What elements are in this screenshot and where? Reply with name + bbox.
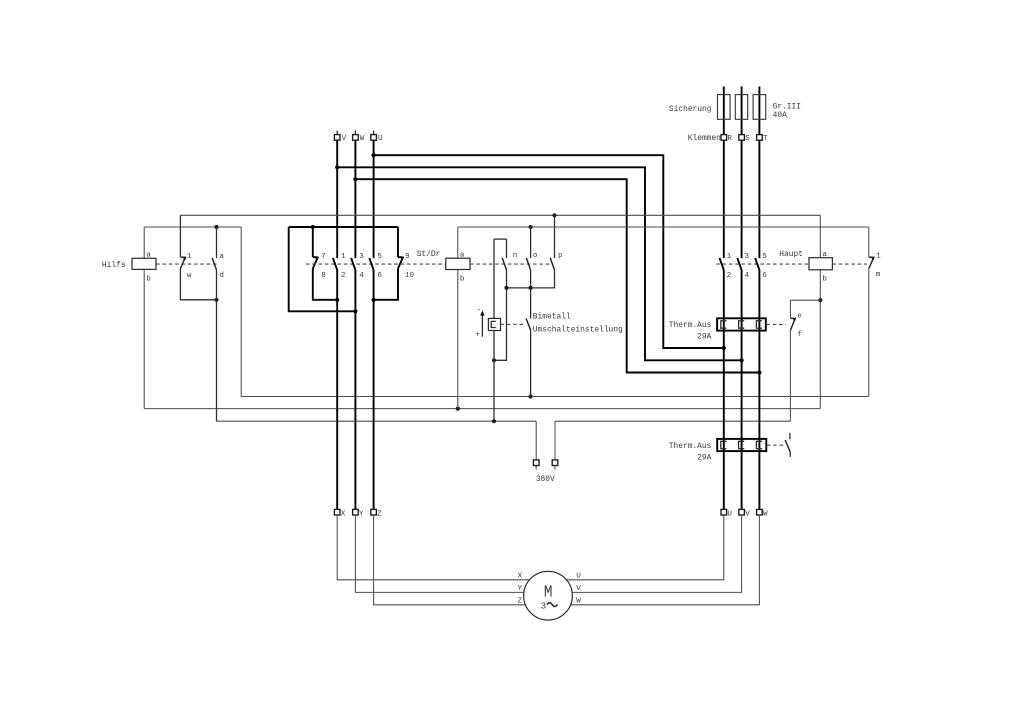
svg-text:2: 2 bbox=[341, 272, 346, 280]
wire 9/10 bottom bbox=[374, 269, 398, 300]
svg-text:40A: 40A bbox=[773, 111, 787, 120]
svg-text:-: - bbox=[476, 306, 481, 315]
label 6 bbox=[377, 272, 382, 280]
label p bbox=[558, 252, 563, 260]
contact 7/8 blade bbox=[313, 256, 319, 268]
wire L2 supply lead S bbox=[741, 87, 743, 259]
wire bus 1 bbox=[241, 396, 869, 398]
wire motor lead right 592.4 bbox=[547, 515, 741, 592]
svg-text:Sicherung: Sicherung bbox=[669, 105, 712, 114]
svg-text:29A: 29A bbox=[697, 453, 711, 462]
svg-text:St/Dr: St/Dr bbox=[417, 250, 441, 259]
svg-text:W: W bbox=[360, 135, 365, 143]
svg-text:W: W bbox=[763, 510, 768, 518]
label Hilfs bbox=[102, 261, 126, 270]
wire W to T bbox=[355, 179, 759, 372]
fuse F3 bbox=[753, 95, 766, 120]
label Haupt 6 bbox=[762, 272, 767, 280]
terminal Z (bottom) bbox=[371, 509, 382, 518]
terminal R bbox=[721, 135, 732, 144]
contact 3/4 blade bbox=[351, 258, 355, 270]
wire top control bus bbox=[180, 214, 820, 216]
svg-text:1: 1 bbox=[341, 253, 346, 261]
label plus bbox=[475, 330, 480, 339]
svg-text:3: 3 bbox=[744, 253, 749, 261]
terminal Y (bottom) bbox=[353, 509, 364, 518]
label d (a/d) bbox=[219, 272, 224, 280]
svg-text:3: 3 bbox=[541, 601, 546, 611]
svg-text:a: a bbox=[822, 251, 827, 259]
wire 723.8 lower main bbox=[723, 270, 725, 510]
label a (a/d) bbox=[219, 253, 224, 261]
svg-text:3: 3 bbox=[359, 253, 364, 261]
label 3~ bbox=[541, 601, 558, 611]
label Haupt 1 bbox=[727, 253, 732, 261]
label f bbox=[797, 331, 802, 339]
wire V vertical bbox=[336, 140, 338, 258]
node o-contact tap bbox=[529, 225, 533, 229]
wire motor lead right 604.8 bbox=[547, 515, 759, 605]
label 380V bbox=[536, 475, 555, 484]
label Bimetall bbox=[533, 312, 571, 321]
contact 7/8 upper bbox=[312, 227, 314, 257]
wire riser x241 bbox=[240, 227, 242, 397]
contact a/d blade bbox=[212, 258, 216, 270]
contact a/d upper bbox=[216, 227, 218, 258]
overload F4 box bbox=[717, 318, 766, 330]
wire K1 top stem bbox=[143, 227, 145, 258]
contact e/f upper bbox=[790, 300, 820, 318]
overload F5 box bbox=[717, 439, 766, 451]
wire K1 bottom stem bbox=[143, 269, 145, 408]
svg-text:V: V bbox=[745, 510, 750, 518]
svg-text:p: p bbox=[558, 252, 563, 260]
terminal W (top) bbox=[353, 131, 365, 144]
label M bbox=[544, 583, 553, 602]
contact o upper bbox=[530, 227, 532, 258]
contact 1/m upper bbox=[868, 227, 870, 257]
terminal U (top) bbox=[371, 131, 383, 144]
pin b K1 bbox=[146, 276, 151, 284]
label Haupt 3 bbox=[744, 253, 749, 261]
node T tap bbox=[757, 370, 761, 374]
node n-bimetall junction bbox=[492, 358, 496, 362]
wire 380V right riser bbox=[554, 421, 556, 460]
linkage group dashed bbox=[306, 263, 446, 265]
arrow bimetall adjust bbox=[480, 310, 484, 336]
linkage K2 dashed bbox=[470, 263, 553, 265]
label motor X bbox=[518, 572, 523, 580]
terminal V (bottom) bbox=[739, 509, 750, 518]
label 7 bbox=[321, 253, 326, 261]
terminal 380V left bbox=[533, 460, 539, 470]
svg-text:29A: 29A bbox=[697, 332, 711, 341]
wire o lower bbox=[530, 270, 532, 319]
label Haupt 4 bbox=[744, 272, 749, 280]
label 3 bbox=[359, 253, 364, 261]
pin a K2 bbox=[460, 251, 465, 259]
linkage F5 dashed bbox=[767, 444, 784, 446]
label Gr.III bbox=[773, 102, 801, 111]
linkage K1 dashed bbox=[156, 263, 219, 265]
svg-text:V: V bbox=[576, 585, 581, 593]
wire U to R bbox=[374, 155, 724, 348]
contact e/f blade bbox=[790, 317, 796, 330]
svg-text:b: b bbox=[822, 275, 827, 283]
svg-text:6: 6 bbox=[377, 272, 382, 280]
label Sicherung bbox=[669, 105, 712, 114]
node V tap bbox=[335, 165, 339, 169]
label Klemmen bbox=[688, 134, 721, 143]
svg-text:n: n bbox=[513, 252, 518, 260]
node V-line junction bbox=[335, 298, 339, 302]
linkage F4 dashed bbox=[766, 323, 786, 325]
wire 337.2 lower main bbox=[336, 270, 338, 510]
svg-text:Therm.Aus: Therm.Aus bbox=[669, 442, 712, 451]
linkage K3 right dashed bbox=[832, 263, 867, 265]
wire 1/m lower bbox=[868, 269, 870, 397]
label Haupt bbox=[779, 250, 803, 259]
node contact7 tap bbox=[311, 225, 315, 229]
label 1 (1/m) bbox=[876, 253, 881, 261]
wire 741.6 lower main bbox=[741, 270, 743, 510]
wire bus 3 left bbox=[217, 420, 537, 422]
wire o below bimetall contact bbox=[530, 330, 532, 397]
contact 9/10 blade bbox=[398, 256, 404, 268]
svg-text:Umschalteinstellung: Umschalteinstellung bbox=[533, 326, 623, 335]
svg-text:f: f bbox=[797, 331, 802, 339]
svg-text:a: a bbox=[460, 251, 465, 259]
svg-text:U: U bbox=[576, 572, 581, 580]
pin a K1 bbox=[146, 251, 151, 259]
wire motor lead left 604.8 bbox=[374, 515, 548, 605]
svg-text:Y: Y bbox=[359, 510, 364, 518]
svg-text:T: T bbox=[763, 135, 768, 143]
svg-text:M: M bbox=[544, 583, 553, 602]
svg-text:5: 5 bbox=[762, 253, 767, 261]
contact Haupt 5/6 blade bbox=[755, 258, 759, 270]
coil K2 St/Dr bbox=[446, 258, 470, 269]
svg-text:2: 2 bbox=[727, 272, 732, 280]
terminal W (bottom) bbox=[757, 509, 768, 518]
svg-text:o: o bbox=[533, 252, 538, 260]
node bimetall junction bbox=[492, 419, 496, 423]
svg-text:b: b bbox=[146, 276, 151, 284]
svg-text:4: 4 bbox=[359, 272, 364, 280]
terminal U (bottom) bbox=[721, 509, 732, 518]
svg-text:7: 7 bbox=[321, 253, 326, 261]
label 29A lower bbox=[697, 453, 711, 462]
linkage bimetall dashed bbox=[501, 323, 526, 325]
wire group top rail bbox=[289, 226, 398, 228]
svg-text:w: w bbox=[187, 272, 192, 280]
svg-text:5: 5 bbox=[377, 253, 382, 261]
label 8 bbox=[321, 272, 326, 280]
contact Haupt 3/4 blade bbox=[737, 258, 741, 270]
svg-text:380V: 380V bbox=[536, 475, 555, 484]
terminal X (bottom) bbox=[334, 509, 345, 518]
svg-text:X: X bbox=[341, 510, 346, 518]
wire bimetall line bbox=[493, 239, 495, 421]
wire bus a (Hilfs top) bbox=[144, 226, 241, 228]
svg-text:S: S bbox=[745, 135, 750, 143]
wire W vertical bbox=[354, 140, 356, 258]
wire U vertical bbox=[373, 140, 375, 258]
coil K1 Hilfs bbox=[132, 258, 156, 269]
label Umschalteinstellung bbox=[533, 326, 623, 335]
label motor Y bbox=[518, 585, 523, 593]
label 5 bbox=[377, 253, 382, 261]
svg-text:Y: Y bbox=[518, 585, 523, 593]
svg-text:U: U bbox=[378, 135, 383, 143]
label Therm.Aus lower bbox=[669, 442, 712, 451]
label w (1/w) bbox=[187, 272, 192, 280]
label Haupt 5 bbox=[762, 253, 767, 261]
contact p upper bbox=[554, 215, 556, 258]
label Haupt 2 bbox=[727, 272, 732, 280]
wire 1/w bottom bbox=[180, 269, 216, 300]
contact 5/6 blade bbox=[369, 258, 373, 270]
svg-text:d: d bbox=[219, 272, 224, 280]
svg-text:1: 1 bbox=[727, 253, 732, 261]
wire 759.4 lower main bbox=[758, 270, 760, 510]
svg-text:Therm.Aus: Therm.Aus bbox=[669, 321, 712, 330]
wire K2 top stem bbox=[457, 227, 459, 258]
svg-text:e: e bbox=[797, 312, 802, 320]
wire a/d bottom bbox=[216, 270, 218, 421]
wire motor lead left 592.4 bbox=[355, 515, 547, 592]
wire n bracket bbox=[494, 238, 507, 240]
label 4 bbox=[359, 272, 364, 280]
node o-line junction bbox=[529, 286, 533, 290]
wire K2 bottom stem bbox=[457, 270, 459, 409]
wire motor lead right 579.8 bbox=[547, 515, 724, 580]
terminal S bbox=[739, 135, 750, 144]
contact 1/w blade bbox=[180, 256, 186, 268]
wire 355.4 lower main bbox=[354, 270, 356, 510]
wire bus b (St/Dr top) bbox=[458, 226, 869, 228]
pin b K2 bbox=[460, 275, 465, 283]
label 29A upper bbox=[697, 332, 711, 341]
wire motor lead left 579.8 bbox=[337, 515, 547, 580]
label 2 bbox=[341, 272, 346, 280]
svg-text:m: m bbox=[876, 271, 881, 279]
label Therm.Aus upper bbox=[669, 321, 712, 330]
svg-text:Haupt: Haupt bbox=[779, 250, 803, 259]
wire K3 bottom stem bbox=[819, 270, 821, 409]
label 1 bbox=[341, 253, 346, 261]
node W tap bbox=[353, 177, 357, 181]
contact o blade bbox=[526, 258, 530, 270]
fuse F1 bbox=[718, 95, 731, 120]
contact p blade bbox=[550, 258, 554, 270]
pin b K3 bbox=[822, 275, 827, 283]
contact trip stub lower bbox=[789, 452, 791, 457]
node U-line junction bbox=[372, 298, 376, 302]
svg-text:+: + bbox=[475, 330, 480, 339]
svg-text:Hilfs: Hilfs bbox=[102, 261, 126, 270]
svg-text:R: R bbox=[727, 135, 732, 143]
svg-text:Klemmen: Klemmen bbox=[688, 134, 721, 143]
wire V to S bbox=[337, 167, 741, 360]
label e bbox=[797, 312, 802, 320]
wire p lower bbox=[507, 270, 555, 288]
label 10 bbox=[405, 272, 415, 280]
contact Haupt 1/2 blade bbox=[720, 258, 724, 270]
wire e/f lower bbox=[789, 330, 791, 421]
svg-text:X: X bbox=[518, 572, 523, 580]
label motor W bbox=[576, 597, 581, 605]
wire 373.6 lower main bbox=[373, 270, 375, 510]
wire L3 supply lead T bbox=[758, 87, 760, 259]
terminal T bbox=[757, 135, 768, 144]
node a/d tap bbox=[214, 225, 218, 229]
label 9 bbox=[405, 253, 410, 261]
wire n lower bbox=[494, 270, 507, 360]
svg-text:b: b bbox=[460, 275, 465, 283]
contact 1/m blade bbox=[869, 256, 875, 268]
svg-text:U: U bbox=[727, 510, 732, 518]
coil K3 Haupt bbox=[809, 258, 832, 270]
contact 9/10 upper bbox=[397, 227, 399, 257]
contact bimetall blade bbox=[526, 319, 531, 331]
node R tap bbox=[722, 346, 726, 350]
svg-text:Gr.III: Gr.III bbox=[773, 102, 801, 111]
label 1 (1/w) bbox=[187, 253, 192, 261]
linkage K3 dashed bbox=[716, 263, 809, 265]
label motor U bbox=[576, 572, 581, 580]
svg-text:6: 6 bbox=[762, 272, 767, 280]
wire K3 top stem bbox=[819, 215, 821, 257]
label St/Dr bbox=[417, 250, 441, 259]
svg-text:4: 4 bbox=[744, 272, 749, 280]
svg-text:Z: Z bbox=[377, 510, 382, 518]
wire L1 supply lead R bbox=[723, 87, 725, 259]
svg-text:10: 10 bbox=[405, 272, 415, 280]
wire group left leg bbox=[289, 227, 356, 311]
terminal 380V right bbox=[552, 460, 558, 470]
node 1/w-a/d junction bbox=[214, 298, 218, 302]
node U tap bbox=[372, 153, 376, 157]
svg-text:9: 9 bbox=[405, 253, 410, 261]
node St/Dr-b junction bbox=[456, 407, 460, 411]
node n-line junction bbox=[504, 286, 508, 290]
node W-line junction bbox=[353, 309, 357, 313]
svg-text:a: a bbox=[146, 251, 151, 259]
svg-text:1: 1 bbox=[876, 253, 881, 261]
wire 7/8 bottom bbox=[313, 269, 337, 300]
svg-text:a: a bbox=[219, 253, 224, 261]
pin a K3 bbox=[822, 251, 827, 259]
contact 1/2 blade bbox=[333, 258, 337, 270]
svg-text:Z: Z bbox=[518, 597, 523, 605]
node S tap bbox=[740, 358, 744, 362]
node o-bottom junction bbox=[529, 394, 533, 398]
svg-text:8: 8 bbox=[321, 272, 326, 280]
contact n blade bbox=[502, 258, 506, 270]
fuse F2 bbox=[735, 95, 747, 120]
svg-text:W: W bbox=[576, 597, 581, 605]
wire 380V left riser bbox=[535, 421, 537, 460]
wire bus 2 bbox=[144, 408, 820, 410]
label o bbox=[533, 252, 538, 260]
contact trip blade bbox=[785, 440, 790, 452]
label motor Z bbox=[518, 597, 523, 605]
motor M1 circle bbox=[524, 571, 573, 620]
terminal V (top) bbox=[334, 131, 346, 144]
label 40A bbox=[773, 111, 787, 120]
contact n upper bbox=[506, 239, 508, 258]
svg-text:V: V bbox=[342, 135, 347, 143]
svg-text:Bimetall: Bimetall bbox=[533, 312, 571, 321]
label m (1/m) bbox=[876, 271, 881, 279]
wire bus 3 right bbox=[555, 420, 790, 422]
node e/f tap bbox=[818, 298, 822, 302]
label n bbox=[513, 252, 518, 260]
contact 1/w upper bbox=[179, 215, 181, 257]
node p-contact tap bbox=[552, 213, 556, 217]
bimetall element B1 bbox=[488, 318, 500, 330]
label minus bbox=[476, 306, 481, 315]
contact trip stub upper bbox=[789, 433, 791, 439]
svg-text:1: 1 bbox=[187, 253, 192, 261]
label motor V bbox=[576, 585, 581, 593]
